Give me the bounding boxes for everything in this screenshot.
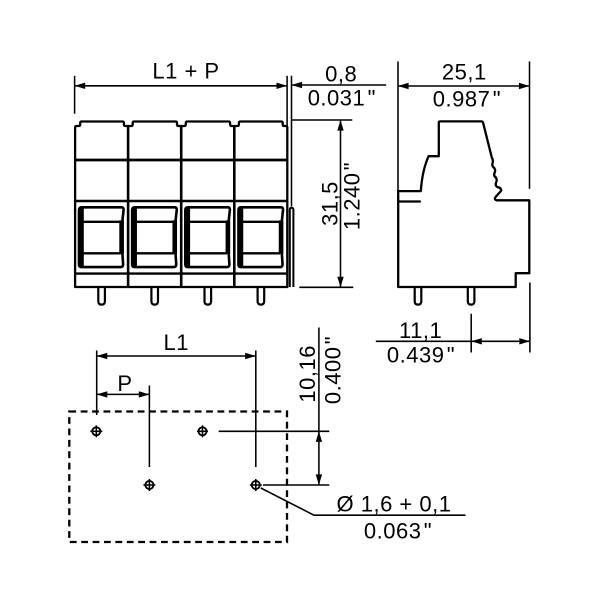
svg-text:0.439 ": 0.439 " [387, 342, 455, 367]
svg-text:0.400 ": 0.400 " [320, 336, 345, 404]
10,16 bottom extension line [263, 484, 329, 486]
clamp window pole 1 [79, 207, 124, 267]
25,1 dimension line [398, 85, 530, 87]
svg-text:0,8: 0,8 [325, 62, 357, 87]
horizontal divider line [75, 159, 287, 162]
L1+P dimension line [75, 85, 288, 87]
10,16 top extension line [219, 430, 330, 432]
front pin 1 [98, 288, 105, 305]
L1 left extension line [96, 351, 98, 416]
svg-text:Ø 1,6 + 0,1: Ø 1,6 + 0,1 [337, 492, 452, 517]
0,8 extension line [291, 76, 293, 207]
side pin 2 [468, 288, 475, 305]
31,5 top extension line [292, 119, 353, 121]
L1 left arrowhead [97, 353, 108, 359]
side view flange bottom line [398, 200, 421, 202]
pole divider 3 [233, 126, 236, 287]
10,16 up arrowhead [316, 431, 322, 442]
25,1 right extension line [529, 62, 531, 189]
10,16 dimension line with tail [318, 328, 320, 486]
11,1 left arrowhead [471, 338, 482, 344]
side pin 1 [415, 288, 422, 305]
25,1 left arrowhead [398, 83, 409, 89]
P left arrowhead [97, 391, 108, 397]
11,1 right extension line [529, 283, 531, 353]
svg-text:10,16: 10,16 [295, 345, 320, 403]
0,8 arrowhead pointing left [292, 82, 303, 88]
10,16 down arrowhead [316, 474, 322, 485]
L1+P right extension line [286, 76, 288, 127]
25,1 left extension line [397, 62, 399, 203]
31,5 bottom arrowhead [337, 277, 343, 288]
svg-text:0.031 ": 0.031 " [308, 86, 376, 111]
pole divider 2 [180, 126, 183, 287]
clamp section bottom edge [75, 272, 287, 274]
hole A1 (top-left) [90, 425, 102, 437]
clamp section top edge [75, 200, 287, 203]
clamp window pole 3 [185, 207, 230, 267]
end plate strip right of pole 4 [290, 208, 294, 287]
svg-text:0.987 ": 0.987 " [433, 86, 501, 111]
front pin 3 [205, 288, 212, 305]
31,5 top arrowhead [337, 120, 343, 131]
front pin 2 [151, 288, 158, 305]
svg-text:L1: L1 [164, 330, 189, 355]
hole B2 (bottom-right) [250, 479, 262, 491]
clamp window pole 2 [132, 207, 177, 267]
front view body outline [75, 122, 287, 288]
31,5 dimension line [340, 120, 342, 287]
drilling plan dashed outline [69, 412, 287, 543]
L1 dimension line [97, 355, 256, 357]
leader line from hole B2 [261, 488, 466, 515]
P dimension line [97, 393, 150, 395]
25,1 right arrowhead [519, 83, 530, 89]
clamp window pole 4 [238, 207, 283, 267]
svg-text:11,1: 11,1 [399, 318, 442, 343]
11,1 left extension line [470, 314, 472, 353]
11,1 right arrowhead [519, 338, 530, 344]
svg-text:25,1: 25,1 [442, 59, 487, 84]
31,5 bottom extension line [299, 286, 353, 288]
L1+P left arrowhead [75, 83, 86, 89]
hole A2 (top-right) [197, 425, 208, 437]
front pin 4 [258, 288, 265, 305]
svg-text:P: P [117, 371, 132, 396]
side view body profile [398, 121, 529, 287]
svg-text:0.063 ": 0.063 " [364, 519, 432, 544]
L1 right extension line [255, 351, 257, 468]
P right arrowhead [139, 391, 150, 397]
L1 right arrowhead [245, 353, 256, 359]
hole B1 (bottom-left) [143, 479, 155, 491]
11,1 dimension line with tail [376, 340, 530, 342]
svg-text:L1 + P: L1 + P [152, 59, 219, 84]
svg-text:1.240 ": 1.240 " [340, 162, 365, 230]
L1+P right arrowhead [277, 83, 288, 89]
L1+P left extension line [74, 76, 76, 114]
pole divider 1 [127, 126, 130, 287]
P right extension line [148, 386, 150, 468]
0,8 dimension line with tail [292, 84, 387, 86]
